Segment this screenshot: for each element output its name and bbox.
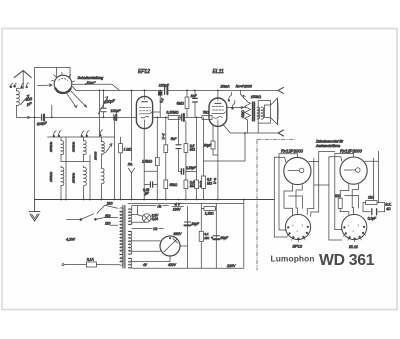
svg-text:100pF: 100pF	[111, 109, 122, 113]
svg-text:Hz: Hz	[153, 227, 157, 231]
wire: heater run bottom	[132, 227, 164, 229]
bus junction dots	[60, 199, 245, 201]
svg-text:U~a: U~a	[213, 178, 217, 184]
coupling capacitor 100pF on rail	[165, 87, 168, 95]
svg-text:U~d: U~d	[161, 133, 165, 139]
svg-text:100pF: 100pF	[159, 83, 170, 87]
jack symbol below FA	[128, 168, 134, 177]
rectifier internals	[164, 238, 178, 252]
resistor 5M (vertical box on rail drop)	[185, 90, 189, 117]
wire: vertical x=178.5	[178, 117, 180, 171]
svg-text:150kHz: 150kHz	[49, 141, 53, 152]
connector arrow (output top)	[278, 87, 284, 93]
svg-text:EL11: EL11	[349, 244, 358, 249]
svg-text:0,15MΩ: 0,15MΩ	[166, 111, 178, 115]
output transformer core	[253, 102, 255, 121]
resistor 40k (zigzag primary feed)	[241, 90, 251, 133]
tube EL11 envelope	[209, 98, 227, 126]
svg-text:15000: 15000	[94, 151, 98, 160]
svg-text:20mA: 20mA	[220, 85, 231, 89]
coil L4b	[102, 168, 105, 199]
output transformer secondary	[257, 107, 264, 119]
wire: bottom return y=268.2	[132, 267, 244, 269]
trimmer contacts near antenna	[21, 83, 29, 88]
wire: vertical x=201.3 with resistor	[199, 204, 203, 269]
resistor 1M (vertical box)	[119, 137, 123, 200]
resistor 0,1 (filled, screen feed)	[153, 90, 162, 112]
rectifier tube AZ11	[160, 236, 180, 256]
capacitor 500pF (series, filled)	[42, 115, 44, 121]
svg-text:1,2kΩ: 1,2kΩ	[205, 211, 214, 215]
wire: vertical x=157.3 (EF12 anode load drop)	[156, 117, 158, 199]
wire: interstage line y=117.4	[153, 112, 212, 117]
wire: heater run top	[132, 206, 169, 210]
transformer HT secondary	[128, 231, 131, 254]
wire: bus into socket group	[273, 199, 275, 201]
svg-text:EL11: EL11	[213, 69, 225, 75]
dashed separator vertical	[256, 140, 258, 270]
adapter disc left (top view)	[284, 157, 311, 184]
tap to 110	[110, 224, 118, 226]
socket left inner labels	[292, 224, 304, 233]
trimmer hooks above coil bank	[53, 130, 103, 137]
wire: left group outer loop	[274, 152, 318, 237]
wire: HT to rectifier	[132, 241, 161, 251]
wire: link y=161.5	[61, 161, 90, 163]
svg-text:Rv=P2000: Rv=P2000	[236, 85, 252, 89]
label -8V / 180V	[172, 202, 183, 211]
capacitor 4nF (bars on x=178.5)	[176, 145, 181, 149]
switch wiper arrows to coil trimmers	[66, 91, 86, 108]
rail junction dots	[34, 90, 219, 119]
wire: EL11 anode to output transformer	[227, 106, 246, 108]
svg-text:Hz: Hz	[158, 204, 162, 208]
svg-text:Austauschröhren: Austauschröhren	[315, 144, 340, 148]
wire: speaker return drop	[257, 123, 259, 133]
svg-text:160kHz: 160kHz	[72, 141, 76, 152]
svg-text:MΩ: MΩ	[207, 181, 213, 185]
wire: vertical x=90	[89, 155, 91, 200]
wire: vertical x=243.8	[243, 200, 245, 269]
svg-text:4,2W: 4,2W	[66, 238, 75, 242]
wire: EF12 anode RC to ground y=184.5	[144, 171, 157, 187]
socket right pin ticks	[343, 233, 365, 242]
antenna coil L1	[17, 88, 24, 117]
socket right inner labels	[348, 224, 360, 233]
tube socket right (bottom view)	[342, 214, 367, 239]
svg-text:0,1μF: 0,1μF	[368, 216, 377, 220]
transformer heater secondary	[128, 209, 131, 225]
wire: vertical x=165.8	[165, 117, 167, 199]
speaker frame box	[258, 101, 270, 124]
wire: main anode rail (y=90.4)	[71, 84, 278, 90]
resistor 1k (vertical, right group)	[338, 198, 342, 208]
svg-text:MΩ: MΩ	[204, 236, 209, 240]
wire: chassis bus y=199.5	[35, 199, 275, 201]
ground symbol	[29, 200, 40, 222]
tube EF12 envelope	[136, 96, 152, 128]
resistor 0,5M upper (vertical box)	[184, 144, 188, 153]
wire: vertical x=196.6	[196, 117, 198, 199]
resistor 0,5M lower (vertical box)	[184, 180, 188, 189]
wire: OT return divider drop	[204, 117, 246, 199]
svg-text:EF12: EF12	[293, 243, 303, 248]
transformer core	[123, 206, 125, 269]
dashed separator horizontal	[257, 139, 295, 141]
svg-text:50μF: 50μF	[204, 144, 212, 148]
wire: coil-bank top link y=137	[48, 136, 115, 138]
svg-text:50kΩ: 50kΩ	[170, 183, 178, 187]
power transformer primary	[99, 208, 123, 265]
coil L2b	[61, 166, 64, 200]
svg-text:0,1A: 0,1A	[87, 257, 95, 261]
svg-text:1,5MΩ: 1,5MΩ	[142, 160, 153, 164]
transformer rectifier-heater secondary	[128, 258, 131, 268]
wire: B+ vertical x=187.5	[180, 206, 188, 268]
connector arrow (output bottom)	[278, 130, 284, 136]
resistor 50k (vertical box)	[164, 180, 168, 189]
wire: vertical x=185.9	[185, 121, 187, 200]
svg-text:30μF: 30μF	[191, 222, 199, 226]
svg-text:4Ω: 4Ω	[386, 207, 391, 211]
resistor 0,3M (divider box)	[202, 176, 206, 188]
wire: right group pins to socket	[340, 184, 358, 215]
wire: vertical x=66	[65, 137, 67, 200]
wire: bus second line y=203.5	[128, 203, 244, 205]
svg-text:1kΩ: 1kΩ	[335, 194, 341, 198]
resistor 0,3M (vertical box x=196.6)	[195, 180, 199, 189]
svg-text:150kΩ: 150kΩ	[251, 95, 262, 99]
svg-text:B.K.: B.K.	[385, 202, 391, 206]
svg-text:WD 361: WD 361	[319, 252, 375, 269]
adapter disc right (top view)	[340, 157, 367, 184]
resistor 0,2M (vertical box)	[164, 145, 168, 153]
socket right pins	[343, 226, 365, 240]
capacitor 1nF (rail drop)	[193, 90, 198, 117]
svg-text:MΩ: MΩ	[190, 148, 196, 152]
svg-text:7kΩ: 7kΩ	[203, 111, 210, 115]
fuse 0,1A	[62, 262, 99, 267]
svg-text:Schalterstellung: Schalterstellung	[78, 76, 104, 80]
wire: left group pins to socket	[284, 184, 302, 215]
antenna	[14, 71, 31, 89]
svg-text:180V: 180V	[173, 208, 182, 212]
tube EL11 internals	[212, 90, 226, 126]
svg-text:1 MΩ: 1 MΩ	[124, 148, 133, 152]
wire: FA pickup line	[131, 90, 133, 199]
wire: rectifier heater from bottom winding	[132, 256, 170, 262]
capacitor 0,25uF (bars on y=171.5)	[179, 169, 197, 174]
svg-text:1nF: 1nF	[191, 94, 198, 98]
coil L4a	[102, 137, 105, 168]
wire: vertical x=114.5 to bus	[114, 117, 116, 199]
capacitor 30uF (second filter)	[211, 236, 219, 239]
antenna terminal dots	[10, 83, 16, 87]
resistor 0,15M (horizontal box)	[168, 115, 180, 119]
wire: link up from grid line	[51, 105, 53, 117]
wire: EL11 bottom-left pin to cap	[212, 125, 214, 141]
svg-text:0,3A: 0,3A	[152, 217, 159, 221]
svg-text:5MΩ: 5MΩ	[177, 102, 185, 106]
svg-text:160kHz: 160kHz	[72, 172, 76, 183]
speaker driver and cone	[265, 98, 279, 124]
capacitor 30uF (first filter)	[184, 222, 190, 225]
mains switch	[67, 205, 118, 220]
plug contacts top-right of EL11	[228, 92, 235, 109]
wire: tuned-grid line y=117.4	[17, 116, 137, 118]
svg-text:Lumophon: Lumophon	[271, 254, 315, 264]
wire: top-left frame	[35, 68, 70, 200]
socket left pins	[287, 226, 309, 240]
tube socket left (bottom view)	[285, 214, 310, 239]
wire: EL11 cathode to bus	[217, 126, 219, 199]
svg-text:0,25μF: 0,25μF	[186, 166, 197, 170]
svg-text:1kΩ: 1kΩ	[368, 195, 374, 199]
svg-text:220V: 220V	[226, 264, 236, 268]
svg-text:220: 220	[106, 202, 113, 206]
adapter disc right pilot	[344, 168, 360, 173]
svg-text:420V: 420V	[168, 263, 177, 267]
tuning gang C1 (vertical with arrow)	[98, 90, 108, 117]
svg-text:40kΩ: 40kΩ	[241, 110, 245, 118]
svg-text:-8 V: -8 V	[174, 202, 181, 206]
pilot lamp	[132, 206, 151, 225]
wire: vertical x=99.5 from rail	[99, 90, 101, 137]
svg-text:FA: FA	[128, 163, 133, 167]
coil L3b	[84, 166, 87, 200]
resistor 7k (horizontal box)	[202, 115, 212, 119]
svg-text:Rv12P2000: Rv12P2000	[340, 149, 363, 154]
svg-text:30μF: 30μF	[220, 236, 228, 240]
socket left pin ticks	[287, 233, 309, 242]
svg-text:Rv12P2000: Rv12P2000	[281, 149, 304, 154]
svg-text:150kHz: 150kHz	[49, 171, 53, 182]
wire: grid lead with arrow into band switch	[38, 84, 53, 87]
wire: EF12 cathode to bus	[143, 129, 145, 200]
svg-text:380V: 380V	[174, 232, 183, 236]
resistor 1,5M (vertical box)	[155, 157, 159, 165]
capacitor 0,1uF (output)	[363, 203, 385, 215]
svg-text:110: 110	[105, 214, 111, 218]
svg-text:EF12: EF12	[138, 69, 150, 75]
coil L3a	[84, 137, 87, 162]
wire: right group outer loop	[314, 151, 379, 240]
resistor 1,2k (horizontal box)	[201, 207, 216, 211]
tube EF12 internals	[139, 90, 152, 128]
adapter disc left pilot	[288, 168, 304, 173]
capacitor (filled, AVC node)	[182, 114, 184, 121]
wire: EL11 bottom-right pin diagonal to speaker-return	[223, 124, 278, 133]
variable arrow over antenna coil	[21, 95, 30, 105]
wire: EF12 grid feed	[135, 116, 137, 118]
band switch S1	[52, 72, 75, 93]
wire: vertical x=216.3	[215, 204, 217, 269]
resistor 1k (horizontal, output)	[363, 193, 385, 204]
capacitor cathode (box)	[211, 141, 218, 155]
trimmer arrow on L4a	[106, 144, 112, 153]
coil L2a	[61, 137, 64, 162]
capacitor 100pF (series, filled)	[114, 115, 116, 120]
